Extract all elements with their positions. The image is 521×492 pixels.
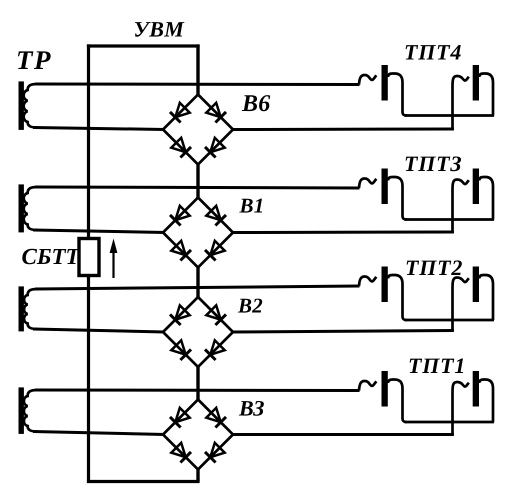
- wire: ТПТ2 riser from bottom wire: [451, 288, 454, 332]
- ТПТ1 primary turn bump 2 on riser: [453, 382, 469, 393]
- bridge В1 diode D4 bottom-right edge: [210, 241, 224, 255]
- ТПТ1 secondary hook 1: [388, 380, 407, 423]
- bridge В6 diode D2 top-right edge: [206, 103, 220, 117]
- wire: УВМ top bus line: [87, 44, 200, 47]
- ТПТ1 secondary hook 2: [479, 380, 493, 423]
- ТПТЗ magnetic core 1 bar: [382, 169, 388, 205]
- bridge ВЗ diode D2 top-right edge: [206, 408, 220, 422]
- wire: ТПТ1 riser from bottom wire: [451, 393, 454, 436]
- bridge ВЗ diamond outline: [163, 400, 233, 470]
- ТПТ1 magnetic core 2 bar: [473, 371, 479, 407]
- svg-text:ТПТ4: ТПТ4: [404, 40, 462, 65]
- wire: channel 2 winding bottom to bridge В1 left vertex: [33, 230, 165, 233]
- wire: channel 1 winding bottom to bridge В6 left vertex: [33, 128, 165, 130]
- bridge В2 diamond outline: [163, 297, 233, 367]
- ТПТЗ secondary hook 1: [388, 177, 407, 220]
- ТПТ2 primary turn bump 2 on riser: [453, 278, 469, 289]
- wire: channel 3 top line, winding to ТПТ primary: [35, 286, 360, 289]
- wire: ТПТ2 secondary link hook1 to hook2: [405, 319, 495, 322]
- block СБТТ box: [79, 239, 99, 276]
- transformer ТР winding 1 core bar: [19, 81, 24, 129]
- ТПТЗ secondary hook 2: [479, 177, 493, 220]
- wire: channel 4 winding bottom to bridge ВЗ left vertex: [33, 432, 165, 435]
- ТПТ4 magnetic core 1 bar: [382, 65, 388, 101]
- ТПТ4 magnetic core 2 bar: [473, 65, 479, 101]
- bridge В2 diode D1 top-left edge: [175, 305, 189, 319]
- wire: channel 1 bridge В6 right vertex to ТПТ riser: [231, 128, 454, 132]
- bridge В6 diode D1 top-left edge: [175, 103, 189, 117]
- svg-text:ТПТЗ: ТПТЗ: [404, 151, 462, 176]
- bridge В1 diode D1 top-left edge: [175, 206, 189, 220]
- ТПТ2 magnetic core 1 bar: [382, 267, 388, 303]
- bridge ВЗ diode D4 bottom-right edge: [210, 443, 224, 457]
- transformer ТР winding 2 coil: [24, 187, 38, 230]
- bridge ВЗ diode D3 bottom-left edge: [171, 443, 185, 457]
- svg-text:ТР: ТР: [16, 45, 52, 75]
- transformer ТР winding 3 core bar: [19, 286, 24, 331]
- ТПТ2 primary turn bump 1: [359, 277, 376, 287]
- rectifier bridge ВЗ: [163, 400, 233, 470]
- ТПТЗ primary turn bump 2 on riser: [453, 180, 469, 191]
- wire: central vertical, bridge В3 bottom to bottom return: [196, 468, 199, 482]
- svg-text:ВЗ: ВЗ: [238, 396, 265, 421]
- transformer ТР winding 3 coil: [24, 289, 37, 329]
- wire: bottom return line: [87, 480, 200, 483]
- rectifier bridge В1: [163, 198, 233, 268]
- bridge В1 diode D3 bottom-left edge: [171, 241, 185, 255]
- rectifier bridge В6: [163, 95, 233, 165]
- bridge В6 diode D4 bottom-right edge: [210, 138, 224, 152]
- wire: channel 2 bridge В1 right vertex to ТПТ riser: [231, 231, 454, 235]
- wire: central vertical, bridge В6 bottom to В1 top: [196, 163, 199, 200]
- arrow: СБТТ output signal pointing up: [110, 239, 118, 279]
- ТПТ2 secondary hook 2: [479, 275, 493, 320]
- svg-text:СБТТ: СБТТ: [22, 244, 81, 269]
- wire: channel 3 bridge В2 right vertex to ТПТ riser: [231, 331, 454, 333]
- svg-text:В6: В6: [241, 91, 271, 117]
- ТПТ4 secondary hook 1: [388, 74, 407, 116]
- wire: ТПТ1 secondary link hook1 to hook2: [405, 421, 495, 424]
- wire: central vertical, УВМ to bridge В6 top: [196, 44, 199, 96]
- bridge В1 diamond outline: [163, 198, 233, 268]
- ТПТ4 primary turn bump 1: [359, 75, 376, 85]
- current transformer ТПТ2: [359, 267, 494, 332]
- wire: central vertical, bridge В1 bottom to В2 top: [196, 266, 199, 300]
- bridge В6 diode D3 bottom-left edge: [171, 138, 185, 152]
- ТПТ4 secondary hook 2: [479, 74, 493, 116]
- wire: left bus vertical, СБТТ box to bottom return: [87, 276, 90, 482]
- ТПТЗ magnetic core 2 bar: [473, 169, 479, 205]
- wire: ТПТ4 secondary link hook1 to hook2: [405, 114, 495, 117]
- bridge В6 diamond outline: [163, 95, 233, 165]
- wire: ТПТЗ riser from bottom wire: [451, 190, 454, 233]
- transformer ТР winding 1 coil: [24, 84, 38, 128]
- wire: left bus vertical, УВМ to СБТТ box: [87, 44, 90, 238]
- current transformer ТПТ1: [359, 371, 494, 436]
- ТПТ2 secondary hook 1: [388, 275, 407, 320]
- rectifier bridge В2: [163, 297, 233, 367]
- ТПТЗ primary turn bump 1: [359, 179, 376, 189]
- transformer ТР winding 4 core bar: [19, 387, 24, 434]
- ТПТ2 magnetic core 2 bar: [473, 267, 479, 303]
- svg-text:УВМ: УВМ: [134, 17, 186, 42]
- transformer ТР winding 4 coil: [24, 390, 38, 432]
- current transformer ТПТЗ: [359, 169, 494, 234]
- wire: channel 1 top line, winding to ТПТ primary: [35, 83, 360, 87]
- bridge В2 diode D2 top-right edge: [206, 305, 220, 319]
- bridge В2 diode D3 bottom-left edge: [171, 340, 185, 354]
- ТПТ1 primary turn bump 1: [359, 381, 376, 391]
- svg-text:ТПТ1: ТПТ1: [408, 353, 466, 378]
- wire: ТПТ4 riser from bottom wire: [451, 87, 454, 131]
- bridge ВЗ diode D1 top-left edge: [175, 408, 189, 422]
- wire: channel 3 winding bottom to bridge В2 left vertex: [33, 329, 165, 332]
- wire: ТПТЗ secondary link hook1 to hook2: [405, 218, 495, 221]
- svg-text:В2: В2: [237, 294, 263, 318]
- bridge В2 diode D4 bottom-right edge: [210, 340, 224, 354]
- transformer ТР winding 2 core bar: [19, 184, 24, 232]
- ТПТ1 magnetic core 1 bar: [382, 371, 388, 407]
- wire: channel 4 top line, winding to ТПТ primary: [35, 389, 360, 393]
- svg-text:ТПТ2: ТПТ2: [405, 255, 463, 280]
- current transformer ТПТ4: [359, 65, 494, 130]
- wire: central vertical, bridge В2 bottom to В3 top: [196, 365, 199, 402]
- wire: channel 2 top line, winding to ТПТ primary: [35, 187, 360, 188]
- wire: channel 4 bridge ВЗ right vertex to ТПТ riser: [231, 433, 454, 436]
- svg-text:В1: В1: [239, 194, 265, 218]
- ТПТ4 primary turn bump 2 on riser: [453, 76, 469, 87]
- bridge В1 diode D2 top-right edge: [206, 206, 220, 220]
